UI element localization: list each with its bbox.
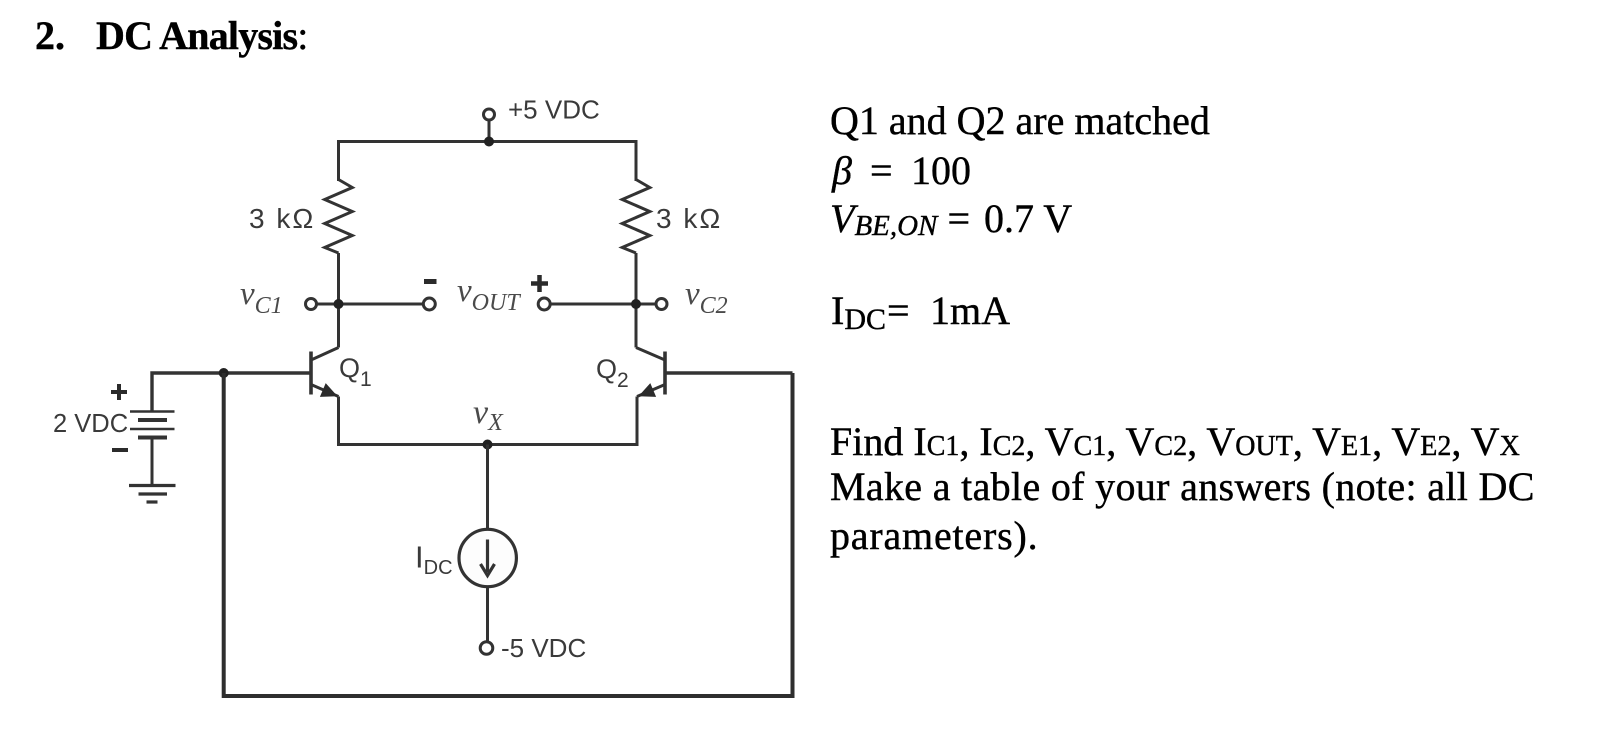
node: vC1 junction dot [334,299,344,309]
current source IDC circle [459,529,516,586]
svg-text:Find IC1, IC2, VC1, VC2, VOUT,: Find IC1, IC2, VC1, VC2, VOUT, VE1, VE2,… [830,419,1520,464]
wire: top rail with left/right drops [339,142,637,182]
svg-text:IDC: IDC [415,540,453,580]
terminal: +5VDC open circle [484,109,495,120]
battery V1 plate long [130,428,175,431]
terminal: vOUT minus open circle [423,298,435,310]
svg-text:Make a table of your answers (: Make a table of your answers (note: all … [830,464,1535,509]
wire: left branch resistor to collector [337,253,340,348]
title: 2. DC Analysis: [35,13,308,58]
wire: Q2 base wire [667,371,793,374]
svg-text:3 kΩ: 3 kΩ [249,203,315,234]
wire: Q1 base wire and battery drop [152,373,310,411]
transistor Q2 emitter arrowhead [639,383,657,397]
svg-text:VBE,ON=0.7 V: VBE,ON=0.7 V [830,196,1072,242]
resistor R1 3k left zigzag [325,180,353,254]
svg-text:vOUT: vOUT [457,273,521,316]
wire: left loop vertical, bottom rail, right loop vertical [224,373,793,696]
battery V1 plate short bottom [138,436,167,440]
transistor Q1 emitter arrowhead [320,383,338,397]
wire: plus terminal to vC2 node [551,303,656,306]
svg-text:vX: vX [473,394,504,436]
wire: vC1 node to minus terminal [317,303,424,306]
svg-text:Q2: Q2 [596,354,629,392]
transistor Q1 collector slant [311,348,339,361]
wire: +5VDC terminal stub [488,120,491,142]
wire: emitter bus [339,397,638,445]
transistor Q2 emitter slant [637,385,665,397]
svg-text:2.: 2. [35,13,65,58]
terminal: vOUT plus open circle [538,298,550,310]
battery V1 plate long top [130,410,175,413]
text: right column notes [830,98,1535,558]
terminal: vC2 open circle [656,299,667,310]
transistor Q1 emitter slant [311,385,339,397]
node: base junction dot [219,368,229,378]
svg-text:vC2: vC2 [685,276,728,319]
node: vC2 junction dot [631,299,641,309]
svg-text:Q1: Q1 [339,353,372,391]
svg-text:DC Analysis:: DC Analysis: [96,13,308,58]
svg-text:2 VDC: 2 VDC [53,410,128,438]
sign: plus above vOUT right terminal [531,275,548,292]
wire: vX to current source [486,445,489,530]
current source IDC arrow [481,540,495,576]
transistor Q2 base bar [663,352,667,395]
battery V1 minus sign [112,448,128,452]
svg-text:β=100: β=100 [831,148,971,193]
node: vX junction dot [483,440,493,450]
svg-text:vC1: vC1 [240,276,283,319]
battery V1 plus sign [111,384,127,400]
svg-text:3 kΩ: 3 kΩ [656,203,722,234]
transistor Q1 base bar [309,352,313,395]
terminal: vC1 open circle [306,299,317,310]
transistor Q2 collector slant [636,348,665,361]
svg-text:Q1 and Q2 are matched: Q1 and Q2 are matched [830,98,1210,143]
wire: right branch resistor to collector [635,253,638,348]
svg-text:IDC=1mA: IDC=1mA [831,288,1010,336]
svg-text:parameters).: parameters). [830,513,1038,558]
ground symbol [129,486,176,503]
svg-text:-5 VDC: -5 VDC [501,633,586,663]
wire: current source to -5VDC terminal [486,587,489,641]
node: +5VDC junction dot [484,137,494,147]
battery V1 plate short [138,418,167,422]
resistor R2 3k right zigzag [622,180,650,254]
terminal: -5VDC open circle [480,642,493,655]
sign: minus above vOUT left terminal [424,279,437,284]
wire: battery to ground [151,440,154,486]
svg-text:+5 VDC: +5 VDC [508,95,600,125]
